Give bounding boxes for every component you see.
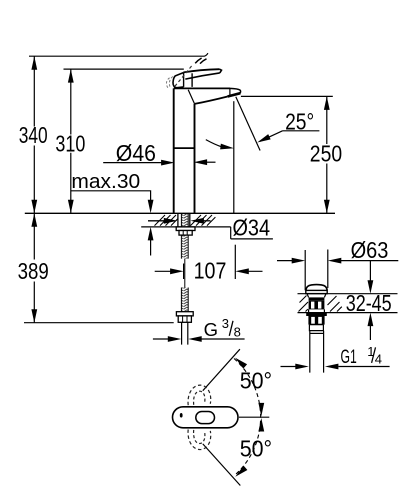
drain counter hatch right	[328, 296, 342, 312]
svg-text:G: G	[204, 319, 218, 340]
faucet body joint line	[174, 147, 195, 149]
25deg diagonal	[236, 97, 260, 151]
curved leader to spout line	[206, 140, 222, 147]
ref line top (340 datum at lever top)	[29, 53, 208, 56]
lever raised ghost dashes	[175, 65, 193, 87]
32-45 up arrow	[369, 325, 371, 340]
drain flange	[306, 290, 327, 293]
spout nose	[230, 88, 241, 93]
lever back hook	[173, 73, 184, 88]
handle body stadium	[173, 407, 239, 428]
ghost handle lower inner	[194, 430, 205, 444]
lever top edge	[183, 69, 219, 72]
svg-text:G1: G1	[341, 347, 357, 368]
dim line 340	[33, 56, 35, 213]
spout ref vertical	[233, 101, 235, 213]
faucet body right edge	[194, 104, 196, 213]
hose nut hex	[178, 316, 191, 322]
rotation arc dashed	[234, 359, 261, 476]
spout outlet lip	[228, 93, 241, 96]
drain counter band bottom	[298, 312, 398, 314]
hole dim arrow right	[203, 220, 211, 222]
svg-text:Ø34: Ø34	[233, 214, 271, 240]
ref line 389 bottom	[24, 322, 174, 324]
25deg leader	[260, 131, 320, 142]
spout bottom curve	[195, 97, 228, 104]
lever raised tip stroke A	[195, 58, 201, 63]
faucet body top / spout top edge	[174, 87, 230, 89]
drain dome cap	[306, 285, 327, 291]
spout junction diagonal	[188, 90, 194, 104]
32-45 down arrow	[369, 261, 371, 281]
max.30 leader	[71, 191, 151, 202]
rotation diagonal lower	[203, 444, 241, 486]
lever bottom edge	[185, 73, 220, 79]
lever pivot sketch arc A	[166, 78, 169, 88]
svg-text:32-45: 32-45	[346, 290, 392, 316]
max.30 lower arrow	[150, 239, 152, 256]
shank nut	[179, 231, 192, 236]
countertop hatching right	[191, 215, 216, 226]
ref line 310 datum	[64, 68, 184, 70]
drain collar line	[310, 332, 323, 334]
D34 bracket	[231, 227, 273, 239]
drain body band	[309, 297, 325, 300]
svg-text:Ø46: Ø46	[116, 140, 156, 166]
arc arrowheads	[233, 355, 247, 368]
hose nut flange	[176, 312, 193, 316]
drain counter band top	[298, 293, 398, 295]
svg-text:max.30: max.30	[71, 170, 140, 193]
svg-text:50°: 50°	[240, 367, 272, 393]
rotation diagonal upper	[203, 349, 240, 391]
drain pipe G1 1/4	[310, 331, 324, 373]
lever pivot sketch arc B	[169, 77, 172, 88]
svg-text:310: 310	[55, 130, 85, 156]
dim 107 ref vertical	[234, 245, 236, 279]
svg-text:8: 8	[234, 324, 241, 339]
lever raised tip stroke B	[200, 59, 207, 64]
handle grip stadium	[196, 412, 215, 424]
shank washer	[176, 227, 195, 231]
shank tube through counter	[178, 213, 190, 227]
lever tip	[220, 69, 222, 73]
G3/8 dim arrows	[153, 338, 245, 340]
svg-text:389: 389	[18, 258, 49, 284]
countertop hatching left	[155, 215, 178, 226]
G1 1/4 dim arrows	[281, 366, 390, 368]
drain body lower	[309, 309, 325, 312]
D63 ref line left	[304, 250, 306, 290]
svg-text:50°: 50°	[240, 436, 272, 462]
countertop top line	[25, 212, 335, 214]
svg-text:25°: 25°	[285, 109, 314, 135]
svg-text:340: 340	[19, 122, 48, 148]
svg-text:4: 4	[375, 352, 382, 367]
D63 dim arrows	[277, 260, 398, 262]
handle centerline	[239, 416, 269, 418]
handle dot	[180, 413, 183, 418]
drain body taper	[307, 294, 326, 298]
D46 dim line and arrow left	[103, 162, 161, 164]
drain nut	[308, 316, 324, 325]
faucet body left edge	[173, 88, 175, 213]
hose pipe G3/8	[182, 322, 188, 344]
shank threaded rod upper	[181, 214, 188, 226]
svg-text:Ø63: Ø63	[351, 237, 389, 263]
hose threaded rod lower	[181, 288, 188, 312]
lever pivot rear vertical	[183, 72, 185, 87]
lever pivot front vertical	[191, 73, 193, 87]
drain step	[309, 325, 324, 331]
D46 arrow right	[207, 161, 216, 163]
ghost handle lower outer	[188, 430, 211, 450]
hole dim arrow left	[148, 220, 166, 222]
hose centerline	[184, 259, 186, 288]
spout outlet inner step	[229, 88, 231, 95]
D63 ref line right	[327, 250, 329, 289]
svg-text:250: 250	[310, 140, 342, 166]
dim 107 tick	[183, 264, 185, 280]
drain washer under counter	[306, 313, 327, 316]
ghost handle upper inner	[194, 391, 205, 405]
ghost handle upper outer	[188, 385, 211, 405]
drain slotted body	[309, 301, 325, 310]
dim line 250	[326, 96, 328, 213]
svg-text:3: 3	[222, 316, 229, 331]
ref line 250 top	[241, 95, 333, 97]
drain counter hatch left	[299, 302, 309, 312]
dim 107 arrows	[155, 270, 263, 272]
countertop bottom line	[141, 226, 231, 228]
dim line 389	[33, 213, 35, 322]
dim line 310	[70, 69, 72, 213]
svg-text:107: 107	[194, 257, 227, 283]
